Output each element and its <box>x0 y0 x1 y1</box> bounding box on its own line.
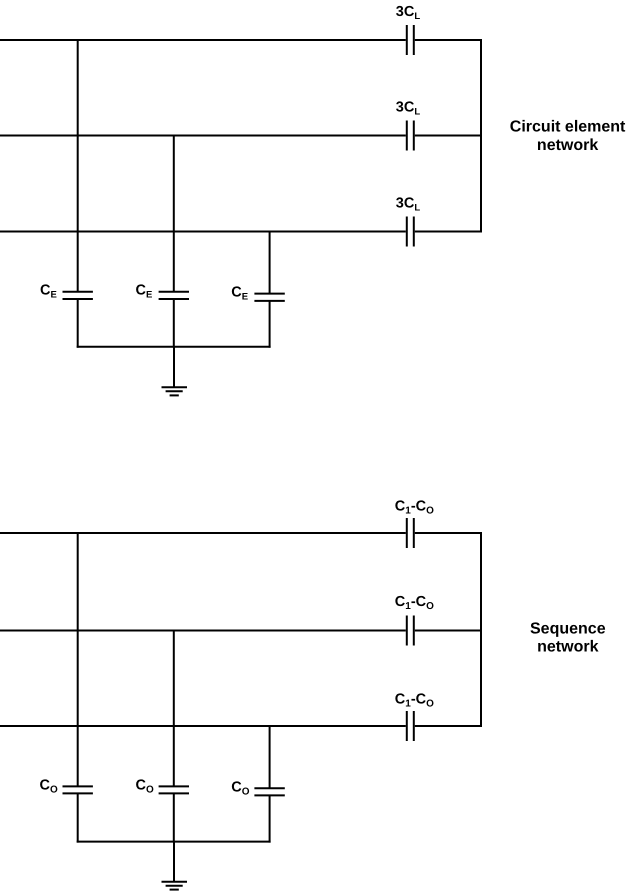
wire: second shunt cap to bottom rail <box>173 299 175 348</box>
wire: sequence network bottom rail <box>77 841 271 843</box>
wire: top network ground stem <box>173 347 175 388</box>
wire: top network phase B horizontal line <box>0 135 406 137</box>
wire: first shunt cap to bottom rail <box>77 299 79 348</box>
capacitor C0 (third shunt) <box>254 788 284 795</box>
wire: sequence first shunt cap to bottom rail <box>77 793 79 842</box>
wire: third shunt cap to bottom rail <box>269 301 271 348</box>
capacitor C1-C0 (phase A series) <box>407 518 414 548</box>
svg-text:network: network <box>537 639 598 656</box>
wire: sequence third shunt cap to bottom rail <box>269 795 271 842</box>
wire: top network right vertical bus <box>480 39 482 233</box>
wire: sequence phase A cap to right bus <box>415 532 482 534</box>
wire: top network dropper from phase A <box>77 39 79 292</box>
label: Sequence network title <box>530 621 606 656</box>
wire: sequence phase B cap to right bus <box>415 630 482 632</box>
capacitor C1-C0 (phase B series) <box>407 616 414 646</box>
capacitor CE (first shunt) <box>63 292 93 299</box>
wire: sequence network phase B horizontal line <box>0 630 406 632</box>
label: Circuit element network title <box>510 119 626 154</box>
wire: sequence network ground stem <box>173 842 175 882</box>
capacitor C1-C0 (phase C series) <box>407 711 414 741</box>
wire: sequence network right vertical bus <box>480 532 482 727</box>
wire: top network bottom rail <box>77 346 271 348</box>
wire: top network dropper from phase B <box>173 135 175 292</box>
wire: sequence phase C cap to right bus <box>415 725 482 727</box>
svg-text:network: network <box>537 137 598 154</box>
capacitor 3CL (phase B series) <box>407 121 414 151</box>
wire: phase A cap to right bus <box>415 39 482 41</box>
capacitor CE (third shunt) <box>254 294 284 301</box>
capacitor 3CL (phase A series) <box>407 25 414 55</box>
svg-text:Sequence: Sequence <box>530 621 606 638</box>
wire: sequence network dropper from phase C <box>269 725 271 788</box>
wire: sequence second shunt cap to bottom rail <box>173 793 175 842</box>
capacitor C0 (first shunt) <box>63 786 93 793</box>
wire: sequence network dropper from phase A <box>77 532 79 786</box>
wire: sequence network phase A horizontal line <box>0 532 406 534</box>
wire: top network phase A horizontal line <box>0 39 406 41</box>
svg-text:Circuit element: Circuit element <box>510 119 626 136</box>
wire: sequence network dropper from phase B <box>173 630 175 787</box>
capacitor 3CL (phase C series) <box>407 217 414 247</box>
wire: top network phase C horizontal line <box>0 231 406 233</box>
wire: sequence network phase C horizontal line <box>0 725 406 727</box>
wire: top network dropper from phase C <box>269 231 271 294</box>
ground (sequence network) <box>162 882 188 890</box>
capacitor C0 (second shunt) <box>159 786 189 793</box>
wire: phase C cap to right bus <box>415 231 482 233</box>
wire: phase B cap to right bus <box>415 135 482 137</box>
ground (top network) <box>162 387 188 395</box>
capacitor CE (second shunt) <box>159 292 189 299</box>
